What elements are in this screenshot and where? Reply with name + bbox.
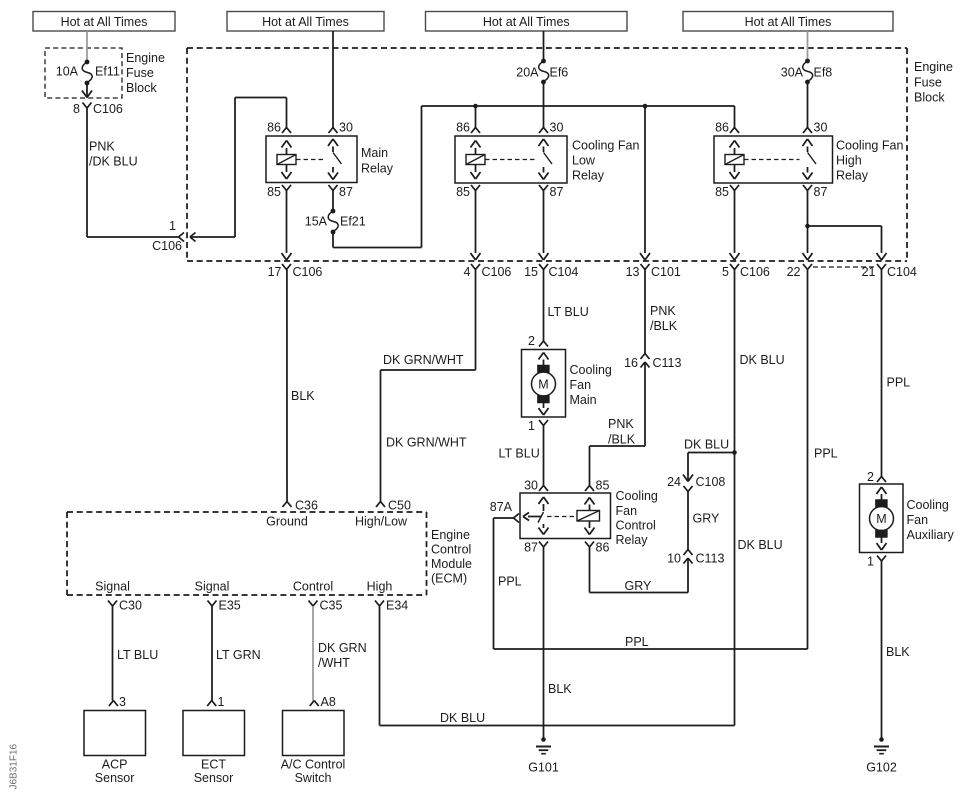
svg-text:High/Low: High/Low (355, 515, 408, 529)
svg-text:20A: 20A (516, 66, 539, 80)
svg-text:10: 10 (667, 552, 681, 566)
svg-text:C30: C30 (119, 599, 142, 613)
svg-text:24: 24 (667, 475, 681, 489)
svg-text:Engine: Engine (126, 51, 165, 65)
svg-text:C113: C113 (696, 552, 725, 566)
svg-text:85: 85 (267, 185, 281, 199)
svg-text:(ECM): (ECM) (431, 572, 467, 586)
svg-text:Engine: Engine (431, 528, 470, 542)
svg-text:/WHT: /WHT (318, 656, 350, 670)
svg-text:Fan: Fan (570, 378, 592, 392)
svg-text:30A: 30A (781, 66, 804, 80)
svg-text:5: 5 (722, 265, 729, 279)
svg-text:/DK BLU: /DK BLU (89, 155, 138, 169)
svg-text:1: 1 (528, 419, 535, 433)
svg-text:DK BLU: DK BLU (684, 438, 729, 452)
svg-text:15A: 15A (305, 215, 328, 229)
svg-text:C106: C106 (482, 265, 512, 279)
svg-text:16: 16 (624, 356, 638, 370)
svg-text:3: 3 (119, 695, 126, 709)
svg-text:C36: C36 (295, 499, 318, 513)
svg-text:C104: C104 (887, 265, 917, 279)
svg-text:PPL: PPL (887, 376, 911, 390)
svg-text:LT GRN: LT GRN (216, 648, 261, 662)
svg-text:86: 86 (456, 121, 470, 135)
svg-text:/BLK: /BLK (608, 433, 636, 447)
svg-text:Hot at All Times: Hot at All Times (61, 15, 148, 29)
svg-text:1: 1 (218, 695, 225, 709)
svg-text:DK GRN/WHT: DK GRN/WHT (386, 436, 467, 450)
svg-text:Control: Control (293, 580, 333, 594)
svg-text:Signal: Signal (95, 580, 130, 594)
svg-text:PNK: PNK (650, 304, 676, 318)
svg-text:LT BLU: LT BLU (117, 648, 158, 662)
svg-text:30: 30 (339, 121, 353, 135)
svg-text:Cooling: Cooling (907, 498, 949, 512)
svg-text:Switch: Switch (295, 771, 332, 785)
svg-text:2: 2 (867, 470, 874, 484)
svg-text:LT BLU: LT BLU (499, 447, 540, 461)
svg-text:17: 17 (268, 265, 282, 279)
svg-text:87: 87 (814, 185, 828, 199)
svg-text:High: High (367, 580, 393, 594)
svg-text:2: 2 (528, 334, 535, 348)
svg-text:Ef6: Ef6 (550, 66, 569, 80)
svg-text:86: 86 (596, 541, 610, 555)
svg-text:C101: C101 (651, 265, 681, 279)
svg-text:/BLK: /BLK (650, 319, 678, 333)
svg-text:BLK: BLK (291, 389, 315, 403)
svg-text:C106: C106 (152, 239, 182, 253)
svg-text:E34: E34 (386, 599, 408, 613)
svg-text:85: 85 (715, 185, 729, 199)
svg-text:G102: G102 (866, 761, 897, 775)
svg-text:Hot at All Times: Hot at All Times (483, 15, 570, 29)
svg-text:GRY: GRY (625, 579, 653, 593)
svg-text:Relay: Relay (616, 533, 649, 547)
svg-text:Ef21: Ef21 (340, 215, 366, 229)
svg-text:Cooling Fan: Cooling Fan (572, 139, 639, 153)
svg-text:PPL: PPL (814, 447, 838, 461)
svg-text:Cooling: Cooling (616, 489, 658, 503)
svg-text:Module: Module (431, 557, 472, 571)
svg-text:Block: Block (126, 81, 157, 95)
svg-text:BLK: BLK (886, 645, 910, 659)
svg-text:C104: C104 (549, 265, 579, 279)
svg-text:BLK: BLK (548, 682, 572, 696)
svg-text:DK BLU: DK BLU (740, 353, 785, 367)
svg-text:Control: Control (616, 519, 656, 533)
svg-text:Ef11: Ef11 (95, 65, 120, 79)
svg-text:30: 30 (550, 121, 564, 135)
svg-text:22: 22 (787, 265, 801, 279)
svg-text:DK GRN/WHT: DK GRN/WHT (383, 353, 464, 367)
svg-text:C106: C106 (293, 265, 323, 279)
svg-text:Hot at All Times: Hot at All Times (262, 15, 349, 29)
svg-text:10A: 10A (56, 65, 79, 79)
svg-text:Low: Low (572, 154, 596, 168)
svg-text:PPL: PPL (498, 575, 522, 589)
svg-text:C35: C35 (320, 599, 343, 613)
svg-text:4: 4 (464, 265, 471, 279)
svg-text:Engine: Engine (914, 60, 953, 74)
svg-text:ECT: ECT (201, 758, 226, 772)
svg-text:8: 8 (73, 102, 80, 116)
svg-text:Cooling: Cooling (570, 363, 612, 377)
svg-text:PNK: PNK (89, 140, 115, 154)
svg-text:DK BLU: DK BLU (440, 711, 485, 725)
svg-text:87: 87 (524, 541, 538, 555)
svg-text:Main: Main (361, 146, 388, 160)
svg-text:87: 87 (550, 185, 564, 199)
svg-text:Relay: Relay (836, 169, 869, 183)
svg-text:C108: C108 (696, 475, 726, 489)
svg-text:C50: C50 (388, 499, 411, 513)
svg-text:A/C Control: A/C Control (281, 758, 346, 772)
svg-text:Main: Main (570, 393, 597, 407)
svg-text:85: 85 (596, 479, 610, 493)
svg-text:85: 85 (456, 185, 470, 199)
svg-text:86: 86 (715, 121, 729, 135)
svg-text:Sensor: Sensor (194, 771, 234, 785)
svg-text:Block: Block (914, 91, 945, 105)
svg-text:DK BLU: DK BLU (738, 538, 783, 552)
svg-text:Fan: Fan (907, 513, 929, 527)
svg-text:C106: C106 (740, 265, 770, 279)
svg-text:1: 1 (867, 555, 874, 569)
svg-text:PNK: PNK (608, 417, 634, 431)
svg-text:DK GRN: DK GRN (318, 641, 367, 655)
svg-text:G101: G101 (528, 761, 559, 775)
svg-text:ACP: ACP (102, 758, 128, 772)
svg-text:Sensor: Sensor (95, 771, 135, 785)
svg-text:E35: E35 (219, 599, 241, 613)
svg-text:87: 87 (339, 185, 353, 199)
svg-text:13: 13 (626, 265, 640, 279)
svg-text:C106: C106 (93, 102, 123, 116)
svg-text:Fuse: Fuse (914, 76, 942, 90)
svg-text:Signal: Signal (195, 580, 230, 594)
svg-text:PPL: PPL (625, 635, 649, 649)
svg-text:Cooling Fan: Cooling Fan (836, 139, 903, 153)
svg-text:C113: C113 (653, 356, 682, 370)
svg-text:LT BLU: LT BLU (548, 305, 589, 319)
svg-text:15: 15 (524, 265, 538, 279)
svg-text:Relay: Relay (572, 169, 605, 183)
svg-text:Ground: Ground (266, 515, 308, 529)
svg-text:M: M (876, 512, 886, 526)
svg-text:Control: Control (431, 543, 471, 557)
svg-text:30: 30 (524, 479, 538, 493)
svg-text:Fan: Fan (616, 504, 638, 518)
svg-text:87A: 87A (490, 500, 513, 514)
svg-text:Auxiliary: Auxiliary (907, 528, 955, 542)
svg-text:86: 86 (267, 121, 281, 135)
svg-text:30: 30 (814, 121, 828, 135)
svg-text:M: M (538, 378, 548, 392)
svg-text:J6B31F16: J6B31F16 (9, 743, 20, 789)
svg-text:GRY: GRY (693, 512, 721, 526)
svg-text:Fuse: Fuse (126, 66, 154, 80)
svg-text:1: 1 (169, 219, 176, 233)
svg-text:A8: A8 (321, 695, 336, 709)
svg-text:Relay: Relay (361, 162, 394, 176)
svg-text:High: High (836, 154, 862, 168)
svg-text:Ef8: Ef8 (814, 66, 833, 80)
svg-text:Hot at All Times: Hot at All Times (745, 15, 832, 29)
